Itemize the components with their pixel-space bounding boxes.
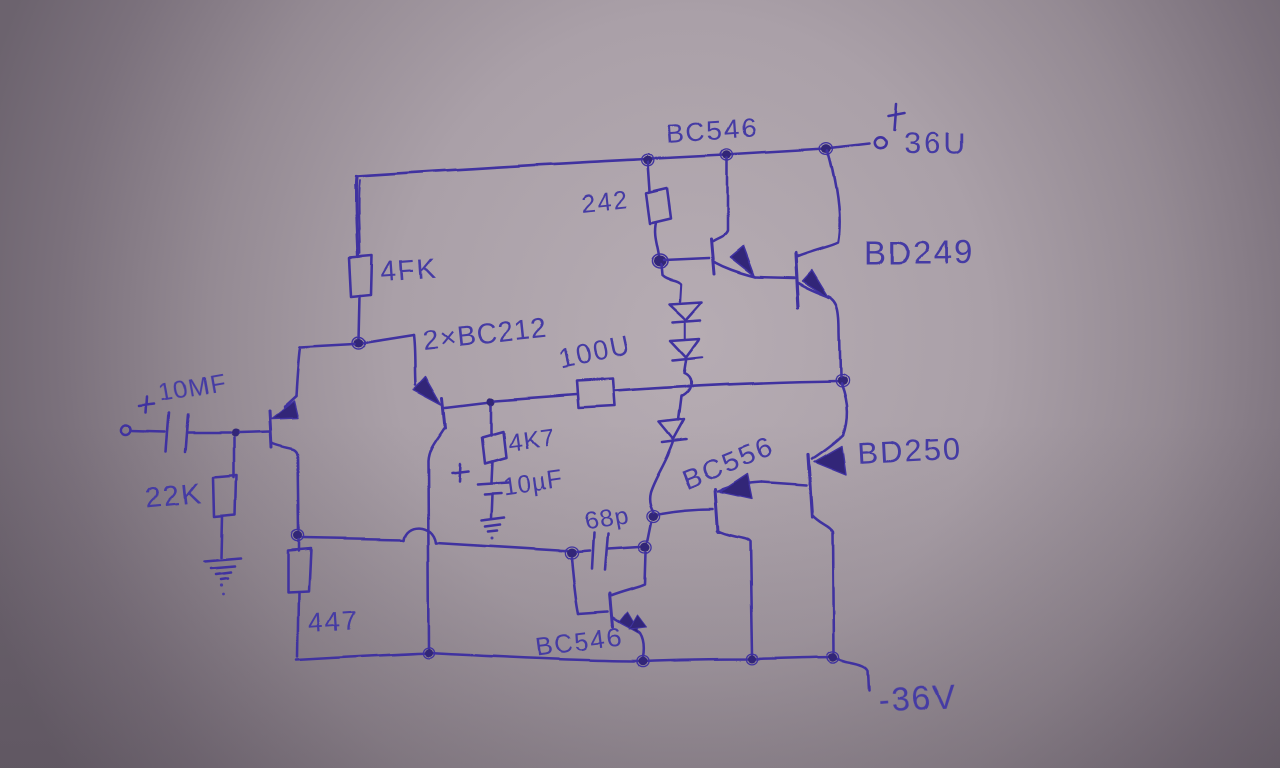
wire 100U to output node (615, 381, 838, 391)
transistor Q5 BC556 (716, 490, 719, 532)
wire node to hop (303, 538, 404, 540)
diode D1 (669, 302, 702, 320)
node Q1 collector (294, 532, 303, 540)
svg-text:BD249: BD249 (864, 234, 975, 271)
diode D3 (659, 419, 684, 439)
node rail BD250 (829, 653, 838, 661)
svg-text:22K: 22K (144, 477, 205, 515)
transistor Q2 BC212 (bar, emitter arrow, collector) (443, 397, 446, 428)
terminal +36V supply (874, 137, 885, 148)
wire node to BC556 base (658, 509, 714, 514)
wire bottom supply rail (297, 653, 869, 691)
capacitor C1 10MF input (166, 414, 188, 452)
resistor R5 242 (648, 162, 650, 191)
diode D2 (670, 338, 700, 357)
node rail BD249 collector (822, 145, 832, 154)
node rail 242 (643, 156, 653, 165)
node 68p right (640, 543, 650, 552)
node input base (230, 429, 238, 437)
svg-text:36U: 36U (903, 128, 967, 161)
capacitor C2 10uF (477, 482, 508, 494)
wire D3 to BC556 base node (649, 441, 673, 512)
node rail BC546 collector (723, 151, 732, 159)
node BC556 base junction (648, 512, 658, 521)
hop over feedback wire (678, 360, 691, 420)
wire top-left drop to 4FK (356, 176, 358, 257)
capacitor C3 68p (577, 551, 590, 552)
wire node to node (647, 522, 651, 542)
resistor R1 4FK (349, 256, 372, 297)
wire tail right down to Q2 emitter (414, 335, 416, 384)
wire top supply rail (357, 144, 869, 176)
node tail (4FK / emitters) (354, 339, 364, 348)
wire hop over collector line (404, 528, 436, 543)
wire tail (300, 335, 414, 347)
node 68p left (567, 549, 577, 558)
resistor R3 4K7 (298, 540, 301, 551)
wire input to C1 (131, 432, 165, 433)
ground GND2 below 10uF (481, 517, 504, 531)
diode chain from driver base (661, 264, 681, 301)
input terminal (121, 426, 131, 436)
node feedback 4K7 (487, 397, 495, 405)
wire tail left down to Q1 emitter (296, 347, 300, 396)
transistor Q6 BD250 (808, 455, 812, 517)
transistor Q1 BC212 (bar, emitter arrow, collector) (269, 411, 271, 447)
plus sign 10MF (139, 398, 154, 414)
transistor Q7 BC546 bottom (572, 558, 579, 614)
node output (837, 377, 847, 386)
node rail BC556 (748, 655, 756, 663)
node driver base (654, 256, 667, 267)
resistor R4 4K7 (490, 405, 493, 435)
plus sign 10uF (452, 464, 468, 481)
svg-text:447: 447 (307, 604, 360, 637)
svg-text:242: 242 (580, 185, 630, 218)
node rail Q2 (425, 649, 433, 657)
transistor Q4 BD249 (795, 254, 798, 307)
wire C1 to node (188, 432, 229, 435)
wire hop to 68p node (436, 543, 567, 551)
node rail BC546 (639, 657, 648, 665)
resistor R2 22K (232, 438, 235, 477)
plus sign 36V (888, 104, 904, 130)
wire node to 100U (495, 394, 577, 400)
resistor R6 100U (577, 379, 615, 408)
wire Q2 base to feedback (446, 402, 487, 407)
wire node to BC546 base (664, 258, 709, 260)
svg-text:4FK: 4FK (379, 252, 438, 287)
svg-text:-36V: -36V (877, 678, 959, 721)
transistor Q3 BC546 driver (711, 239, 714, 274)
wire node to Q1 base (238, 432, 269, 433)
svg-text:BD250: BD250 (857, 431, 963, 471)
wire 4FK to tail node (359, 296, 360, 340)
ground GND1 below 22K (204, 558, 240, 579)
